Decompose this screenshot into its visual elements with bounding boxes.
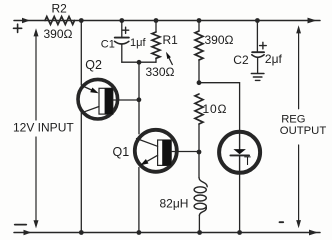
wire Q2 emitter lead [80,21,82,86]
node junction dot Q2 base [137,97,142,102]
node junction dot C1 top [119,18,124,23]
wire tunnel diode cathode to bottom rail [239,173,241,233]
node junction dot Q1 base node [197,150,202,155]
svg-text:390Ω: 390Ω [205,33,234,47]
wire branch to tunnel diode anode [199,83,240,131]
minus symbol input [15,224,26,226]
12V input dimension arrow [34,28,39,228]
node junction dot Q2 collector on bottom rail [79,230,84,235]
wire Q2 base lead [113,99,139,101]
ground symbol [251,74,264,81]
svg-text:82μH: 82μH [160,197,189,211]
resistor R1 [152,21,160,63]
node junction dot base node [137,60,142,65]
wire inductor top lead [198,152,200,178]
transistor Q2 [78,79,118,119]
inductor 82uH [194,178,207,216]
plus symbol input [14,24,22,32]
wire bottom rail [14,232,320,234]
svg-text:REG: REG [281,113,305,125]
svg-text:C1: C1 [101,39,115,51]
svg-text:12V INPUT: 12V INPUT [13,121,74,135]
minus symbol output [280,221,284,223]
svg-text:1μf: 1μf [130,37,146,49]
capacitor C2 [252,21,266,74]
node - output arrow bottom-right [309,230,318,236]
resistor 390 ohm (right) [195,21,203,83]
svg-text:R2: R2 [52,1,68,15]
svg-text:T: T [244,156,251,168]
wire Q1 emitter lead to bottom rail [138,168,140,233]
capacitor C1 [115,21,129,63]
wire inductor bottom lead [198,216,200,233]
svg-text:C2: C2 [233,53,249,67]
node junction dot inductor on bottom rail [197,230,202,235]
svg-text:Q1: Q1 [113,145,130,159]
wire C1/R1 bottom node [122,61,156,63]
node junction dot R2/Q2 [79,18,84,23]
transistor Q1 [135,130,177,172]
REG OUTPUT dimension arrow [296,25,301,228]
wire node line down to Q1 [138,62,140,134]
node junction dot 390 ohm top [197,18,202,23]
node junction dot divider node [197,80,202,85]
svg-text:390Ω: 390Ω [44,27,73,41]
wire Q1 base lead [171,151,199,153]
svg-text:R1: R1 [163,33,179,47]
svg-text:Q2: Q2 [85,58,102,72]
node junction dot R1 top [154,18,159,23]
node + output arrow top-right [308,18,317,24]
node junction dot Q1 emitter on bottom rail [137,230,142,235]
svg-text:OUTPUT: OUTPUT [280,125,327,137]
tunnel diode T [219,132,260,173]
arrow pointer to R1 (330 ohm callout) [166,52,172,65]
resistor 10 ohm [195,94,203,152]
node junction dot C2 top [255,18,260,23]
wire top rail [14,20,320,22]
svg-text:10Ω: 10Ω [203,102,228,116]
node - input terminal arrow bottom-left [24,230,32,235]
svg-text:2μf: 2μf [265,52,283,66]
resistor R2 [45,17,75,25]
wire Q2 collector lead [80,113,82,233]
node junction dot tunnel diode on bottom rail [237,230,242,235]
svg-text:330Ω: 330Ω [146,65,175,79]
node + input terminal arrow top-left [22,18,30,23]
